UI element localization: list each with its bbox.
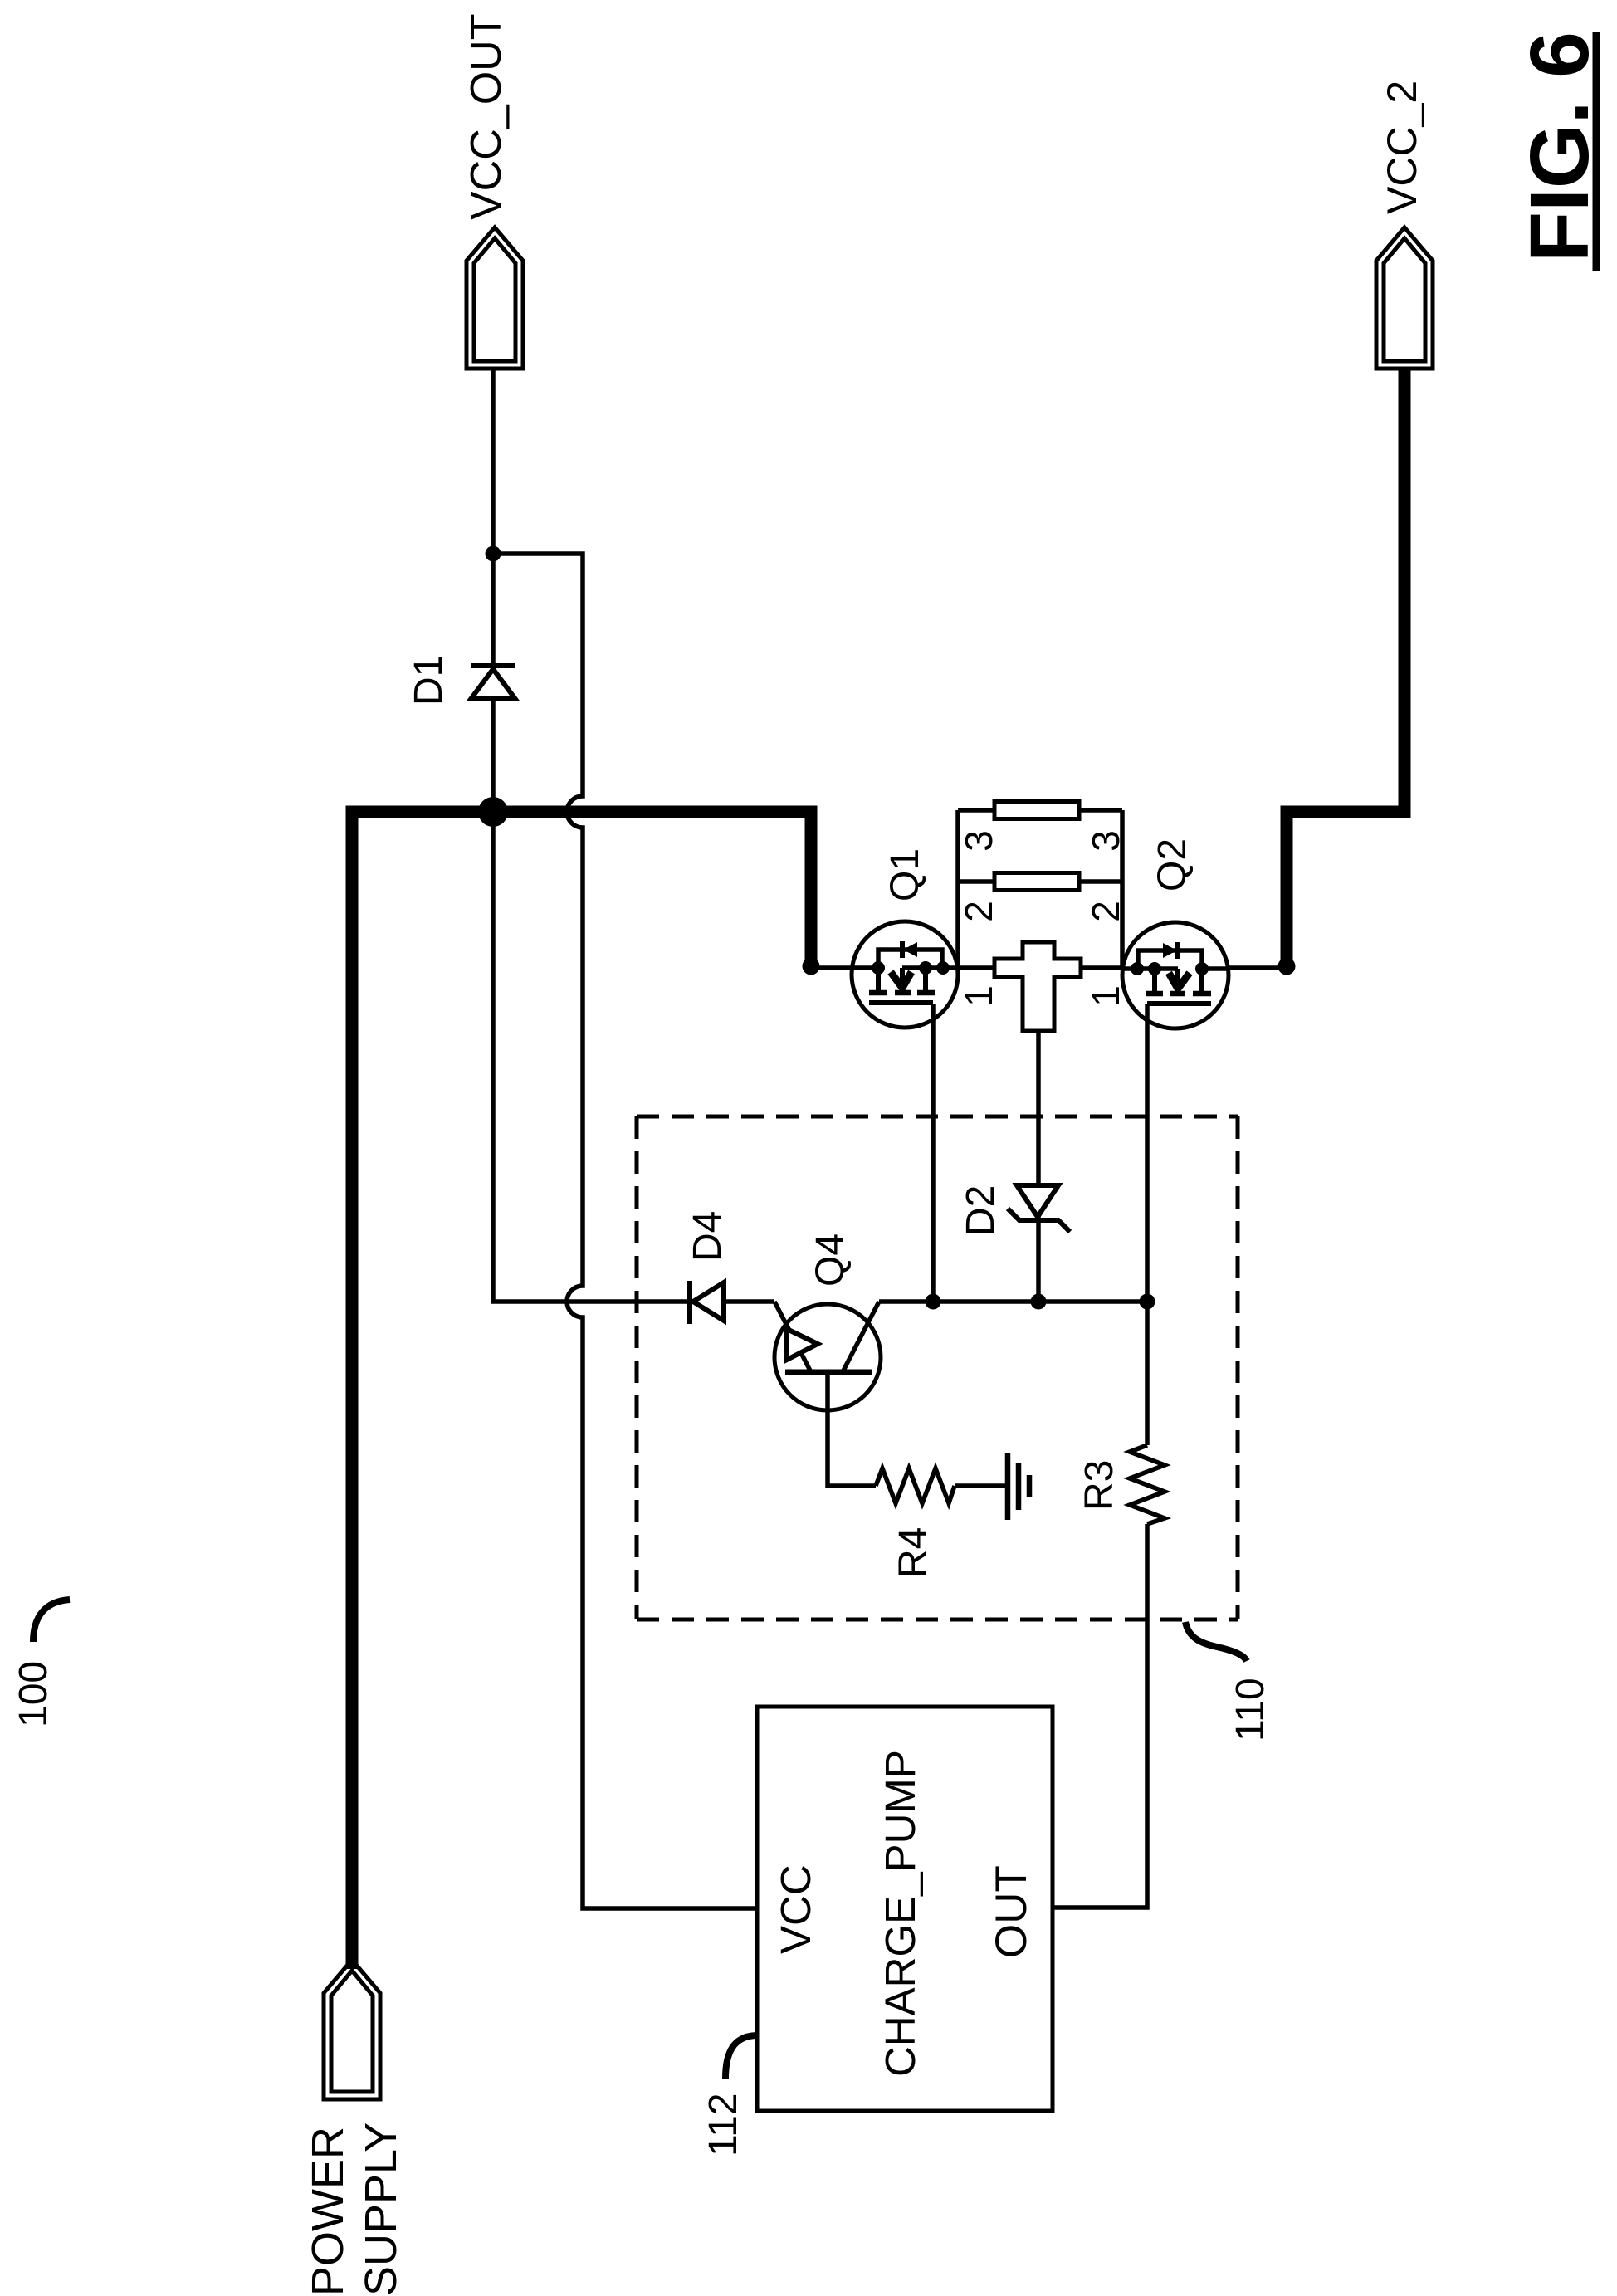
junction dot Q1 drain	[803, 958, 820, 975]
svg-text:110: 110	[1229, 1678, 1273, 1742]
svg-text:VCC: VCC	[772, 1864, 819, 1954]
wire Q2 pin rail	[1120, 810, 1125, 968]
wire VCC_OUT node down-left branch to D4	[493, 812, 774, 1302]
svg-text:112: 112	[701, 2093, 745, 2157]
svg-text:Q1: Q1	[883, 848, 927, 901]
svg-text:R3: R3	[1077, 1460, 1121, 1511]
cross connector pins 1-1	[994, 942, 1081, 1031]
svg-text:POWER: POWER	[303, 2127, 353, 2296]
wire Q4 collector to gate node rail	[879, 1299, 1147, 1304]
junction dot D2 node	[1031, 1294, 1047, 1310]
charge pump box 112	[757, 1707, 1053, 2111]
wire MOSFET source-drain bus Q1-Q2	[811, 965, 852, 970]
svg-text:VCC_OUT: VCC_OUT	[462, 14, 511, 220]
dashed box 110	[637, 1116, 1238, 1619]
junction dot VCC_OUT node	[486, 546, 501, 562]
wire thick bus from POWER SUPPLY to Q1 drain	[352, 812, 811, 1969]
wire Q4 base to R4	[828, 1375, 876, 1486]
terminal VCC_2	[1376, 227, 1433, 369]
transistor Q2 (MOSFET)	[1122, 922, 1229, 1028]
diode D4	[690, 1281, 724, 1324]
junction dot R3 node	[1140, 1294, 1155, 1310]
junction dot Q1 gate node	[926, 1294, 941, 1310]
wire VCC_OUT node down through D1 to bus junction	[491, 554, 496, 812]
svg-text:CHARGE_PUMP: CHARGE_PUMP	[877, 1750, 924, 2077]
svg-text:D2: D2	[959, 1185, 1003, 1236]
svg-text:100: 100	[12, 1661, 56, 1727]
svg-text:1: 1	[1084, 985, 1127, 1007]
wire Q4 emitter diagonal	[774, 1302, 811, 1372]
terminal POWER SUPPLY	[324, 1960, 380, 2099]
diode D1	[471, 666, 515, 698]
jumper rectangle pins 3-3	[994, 802, 1079, 819]
svg-text:VCC_2: VCC_2	[1379, 81, 1425, 214]
svg-text:3: 3	[1084, 830, 1127, 852]
svg-text:D1: D1	[407, 655, 451, 706]
leader arc 112	[725, 2035, 756, 2079]
wire pin3 rung	[958, 808, 1122, 813]
svg-text:D4: D4	[686, 1211, 730, 1262]
wire pin2 rung	[958, 879, 1122, 884]
svg-text:2: 2	[957, 901, 1000, 922]
FIG. 6 underline	[1593, 32, 1600, 271]
svg-text:R4: R4	[892, 1527, 936, 1578]
resistor R4 zigzag	[876, 1468, 955, 1503]
svg-text:Q2: Q2	[1150, 838, 1194, 892]
svg-text:2: 2	[1084, 901, 1127, 922]
leader arc 100	[33, 1600, 70, 1642]
svg-text:OUT: OUT	[987, 1865, 1036, 1958]
wire Q1 pin rail	[955, 810, 960, 968]
wire VCC_OUT node to charge pump VCC (with hops)	[493, 554, 757, 1908]
jumper rectangle pins 2-2	[994, 873, 1079, 891]
wire Q1 gate down to node	[931, 1004, 936, 1302]
leader arc 110	[1185, 1622, 1247, 1661]
wire Q4 collector diagonal	[843, 1302, 879, 1370]
wire R4 to ground	[955, 1483, 1005, 1488]
wire cross tail through D2 to node	[1036, 1031, 1041, 1302]
wire VCC_OUT stem	[491, 369, 496, 554]
svg-text:Q4: Q4	[808, 1233, 852, 1287]
ground symbol	[1008, 1453, 1029, 1520]
transistor Q1 (MOSFET)	[852, 921, 958, 1028]
svg-text:FIG. 6: FIG. 6	[1513, 32, 1606, 262]
junction dot bus/D1	[478, 797, 508, 827]
terminal VCC_OUT	[467, 227, 523, 369]
wire thick bus from VCC_2 to Q2 drain	[1287, 370, 1404, 962]
junction dot Q2 drain	[1278, 958, 1296, 975]
svg-text:1: 1	[957, 985, 1000, 1007]
wire R3 bottom to charge pump OUT	[1053, 1524, 1147, 1908]
svg-text:SUPPLY: SUPPLY	[356, 2123, 406, 2296]
wire Q2 gate down through node to R3 top	[1145, 1004, 1150, 1445]
svg-text:3: 3	[957, 830, 1000, 852]
transistor Q4 (BJT)	[774, 1304, 881, 1410]
zener diode D2	[1008, 1185, 1070, 1232]
resistor R3 zigzag	[1130, 1445, 1165, 1524]
